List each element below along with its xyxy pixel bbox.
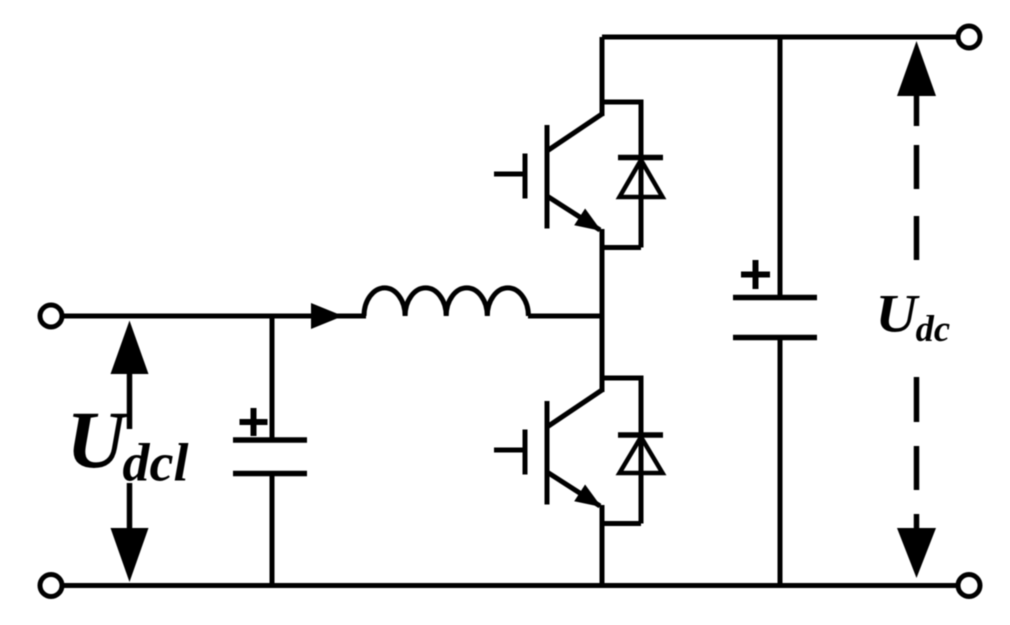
svg-text:U: U: [876, 284, 920, 344]
wire: inductor to midpoint node: [528, 314, 602, 319]
wire: input positive rail: [62, 314, 366, 319]
wire: leg upper (top rail to Q1 collector): [600, 37, 605, 116]
svg-text:U: U: [66, 394, 129, 485]
svg-text:dc: dc: [916, 308, 950, 349]
label U_dc: [876, 284, 951, 349]
inductor L: [364, 288, 528, 316]
transistor Q1 (IGBT): [494, 114, 602, 231]
wire: D1 anode to Q1 emitter: [602, 245, 641, 250]
capacitor C1 plates: [233, 440, 307, 474]
wire: bottom rail: [62, 583, 956, 588]
wire: Q2 collector branch to D2 cathode: [602, 378, 641, 524]
terminal: input -: [40, 575, 62, 597]
wire: leg lower (Q2 emitter to bottom rail): [600, 505, 605, 586]
plus label C2: [741, 260, 770, 289]
diode D1: [618, 158, 663, 198]
wire: D2 anode to Q2 emitter: [602, 521, 641, 526]
capacitor C2 top lead: [778, 37, 783, 298]
capacitor C1 top lead: [270, 316, 275, 440]
capacitor C1 bottom lead: [270, 474, 275, 586]
capacitor C2 bottom lead: [778, 338, 783, 586]
terminal: output -: [958, 575, 980, 597]
svg-text:dcl: dcl: [123, 433, 189, 493]
wire: top rail: [602, 35, 956, 40]
diode D2: [618, 435, 663, 473]
transistor Q2 (IGBT): [494, 390, 602, 507]
plus label C1: [240, 408, 268, 436]
wire: Q1 collector branch to D1 cathode: [602, 102, 641, 248]
current arrow into inductor: [311, 303, 343, 329]
voltage arrow U_dcl: [111, 321, 149, 583]
terminal: input +: [40, 305, 62, 327]
label U_dcl: [66, 394, 188, 493]
terminal: output +: [958, 26, 980, 48]
wire: midpoint leg (Q1 emitter to Q2 collector): [600, 229, 605, 392]
voltage arrow U_dc (dashed): [897, 41, 936, 578]
capacitor C2 plates: [733, 298, 817, 338]
